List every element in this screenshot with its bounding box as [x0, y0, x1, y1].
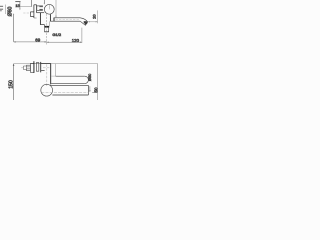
centerlines — [46, 64, 48, 86]
dim line to eccentric — [20, 6, 32, 8]
spout (plan view capsule) — [41, 84, 53, 96]
spout centerline — [41, 92, 89, 94]
stub centerline to dim — [46, 14, 48, 45]
spout bottom line — [50, 20, 80, 22]
circuit-free technical drawing: wall-mounted bath mixer, two views — [0, 0, 100, 100]
inlet flange (bold) — [44, 26, 49, 28]
spout tip curve — [80, 18, 88, 22]
body end cap (bold) — [39, 62, 42, 72]
escutcheon plate edge — [33, 61, 35, 73]
dim 69 — [14, 41, 47, 43]
wall pipe stub — [24, 66, 27, 70]
svg-text:150: 150 — [9, 80, 15, 89]
long reference line (top edge plane) — [14, 63, 31, 65]
svg-text:69: 69 — [35, 37, 40, 42]
cartridge dome circle — [44, 4, 54, 14]
svg-text:20: 20 — [91, 14, 96, 19]
head rear edge — [55, 64, 57, 76]
head front edge (bold) — [50, 64, 52, 85]
handle lever (points back to wall) — [37, 5, 43, 7]
escutcheon — [33, 5, 35, 18]
svg-text:120: 120 — [72, 38, 80, 43]
locking ring — [36, 63, 38, 72]
body tube — [41, 63, 51, 65]
svg-text:G1/2: G1/2 — [52, 32, 61, 37]
clipped vertical extension — [31, 0, 33, 7]
spout centerline — [56, 19, 80, 21]
spout top line — [54, 17, 80, 19]
clipped rotated dim text at left edge — [0, 6, 3, 11]
right extension dim line — [97, 64, 99, 101]
hex nut — [27, 65, 31, 71]
svg-text:15: 15 — [15, 4, 19, 8]
clipped dim extension to dome top — [43, 0, 45, 3]
dim extension with down arrow — [19, 2, 21, 10]
aerator wedge (dark) — [80, 21, 86, 25]
spout joint — [52, 18, 55, 22]
dim 20 line — [88, 21, 97, 23]
dim 150 vertical line, clipped at bottom — [13, 65, 15, 100]
escutcheon — [30, 64, 34, 73]
short dim with down arrow — [89, 86, 91, 91]
eccentric connector — [30, 12, 34, 17]
clipped dim extension to spout top — [55, 0, 57, 16]
body — [37, 12, 45, 14]
dim bar 15 (clipped top dim) — [15, 1, 20, 3]
wall extension line with up arrow — [13, 15, 15, 42]
inlet centerline dashes — [23, 12, 30, 14]
dim line for Ø60 — [5, 5, 7, 15]
svg-text:Ø50: Ø50 — [88, 74, 92, 81]
handle capsule — [51, 75, 56, 77]
svg-text:Ø60: Ø60 — [8, 6, 14, 16]
G1/2 stub — [45, 28, 49, 32]
dim 120 (chained to aerator axis) — [47, 41, 82, 43]
